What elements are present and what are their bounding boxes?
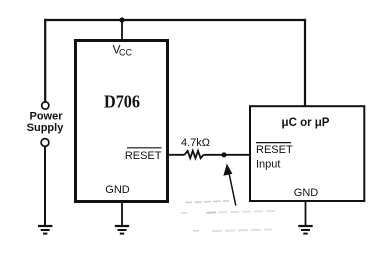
power supply terminal (bottom circle) [41,139,49,147]
wire: left vertical from rail to power supply top terminal [44,19,46,102]
annotation arrow pointing to node [229,174,236,206]
svg-text:Power: Power [29,111,63,123]
wire: left vertical from bottom terminal to ground [44,147,46,227]
faint watermark smudge [181,201,278,231]
resistor R1 4.7k zigzag [185,151,204,158]
ground (uC) [298,226,312,234]
svg-text:Input: Input [256,159,280,171]
svg-text:CC: CC [119,47,132,57]
node: junction dot on top rail (VCC tap) [119,17,124,22]
wire: uC GND pin to ground [305,200,307,226]
svg-text:GND: GND [105,184,130,196]
wire: VCC stub into D706 [121,20,123,40]
power supply terminal (top circle) [42,102,49,109]
svg-text:RESET: RESET [125,150,162,162]
wire: resistor to uC RESET input [204,154,251,156]
ground (D706) [115,226,129,234]
svg-text:Supply: Supply [27,122,65,134]
wire: RESET output to resistor [168,154,185,156]
wire: D706 GND pin to ground [121,202,123,226]
svg-text:RESET: RESET [256,144,293,156]
ground (power supply) [38,226,52,234]
svg-text:μC or μP: μC or μP [282,117,330,129]
IC U1 D706 box [76,41,168,202]
wire: right vertical from rail to uC box top [304,19,306,107]
IC U2 microcontroller box [250,106,364,201]
svg-text:4.7kΩ: 4.7kΩ [181,137,210,149]
wire: top horizontal rail [44,19,306,21]
svg-text:GND: GND [294,187,319,199]
svg-text:D706: D706 [104,91,140,111]
node: junction dot at uC reset input [221,152,226,157]
